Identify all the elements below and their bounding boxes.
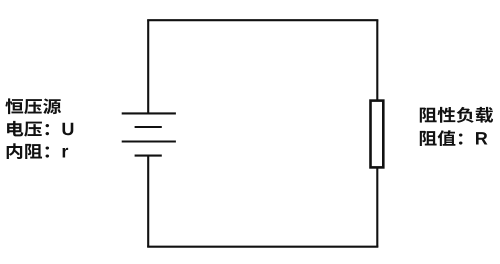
battery B1 (constant-voltage source): long + plate, cell 1 — [122, 112, 176, 114]
battery B1: long + plate, cell 2 — [122, 140, 176, 142]
battery B1: short - plate, cell 2 — [135, 155, 162, 157]
label: 电压：U (voltage: U) — [7, 121, 73, 137]
resistor R: resistive load body — [371, 101, 384, 168]
wire: right side (runs into load) — [376, 20, 378, 247]
wire: left lower (battery - plate to bottom rail) — [147, 156, 149, 247]
wire: bottom rail — [147, 246, 378, 248]
battery B1: short - plate, cell 1 — [135, 126, 162, 128]
wire: top rail — [147, 19, 378, 21]
label: 阻性负载 (resistive load) — [420, 107, 493, 123]
label: 阻值：R (resistance value: R) — [420, 130, 488, 146]
label: 恒压源 (constant-voltage source) — [5, 98, 61, 114]
label: 内阻：r (internal resistance: r) — [7, 143, 68, 159]
wire: left upper (top rail to battery + plate) — [147, 20, 149, 113]
